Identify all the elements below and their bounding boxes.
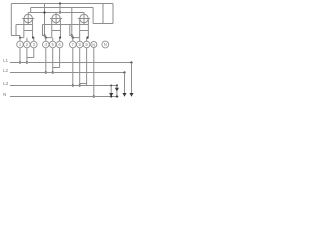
wire terminal 2 lower lead [26,48,28,63]
wire terminal N lower lead [93,48,95,97]
wire output bridge M3 [80,83,87,85]
junction dot L2 return [52,71,54,73]
junction dot L1 input [19,61,21,63]
svg-text:N: N [92,42,95,47]
element M3 current coil left side [79,19,81,38]
element M3 voltage corner [70,25,73,36]
measuring element M2 voltage coil [52,14,60,22]
element M1 voltage wire [16,24,33,26]
terminal N input [91,42,97,48]
junction dot L2 link on voltage bus [43,11,45,13]
junction dot input M2 [45,37,47,39]
wire output bridge M1 [27,57,34,59]
wire left edge [10,4,12,36]
junction dot L1 return [26,61,28,63]
measuring element M1 voltage coil [24,14,32,22]
junction dot input M1 [19,37,21,39]
wire L1 voltage link [11,35,20,37]
svg-text:N: N [3,92,6,97]
wire terminal 5 lower lead [52,48,54,73]
wire terminal 3 lower lead [33,48,35,58]
element M2 voltage corner [43,25,46,36]
terminal 6 [56,41,63,48]
wire terminal 1 lower lead [19,48,21,63]
wire output bridge M2 [53,67,60,69]
arrow L3 load [115,88,119,92]
junction dot N stub [110,95,112,97]
element M3 output jog [87,37,89,39]
wire terminal 1 upper lead [19,36,21,42]
element M1 current coil left side [23,19,25,38]
terminal 1 [17,41,24,48]
wire upper bus left drop [30,8,32,13]
terminal 5 [49,41,56,48]
element M3 voltage wire [60,24,88,26]
arrow N load [109,93,113,97]
element M2 current coil left side [51,19,53,38]
measuring element M3 voltage coil [80,14,88,22]
junction dot output M1 [32,37,34,39]
element M2 output jog [59,37,62,39]
wire terminal 6 upper lead [59,38,61,42]
element M1 current coil right side [32,19,34,38]
wire N load stub [110,86,112,97]
wire voltage-coil bus [28,12,84,14]
svg-text:N: N [104,42,107,47]
wire right edge [112,4,114,24]
wire terminal 3 upper lead [33,38,35,42]
element M3 current coil bottom [80,30,89,32]
element M3 input wire [73,37,80,39]
wire L2 top link [44,4,46,36]
junction dot center drop [59,11,61,13]
wire upper bus [31,7,93,9]
svg-text:L2: L2 [3,68,9,73]
terminal 4 [43,41,50,48]
junction dot L1 rail end [130,61,132,63]
element M2 input wire [46,37,52,39]
element M3 cross vertical [83,12,85,24]
element M2 current coil right side [59,19,61,38]
junction dot L2 input [45,71,47,73]
junction dot L2 link bottom [43,34,45,36]
wire L1 rail [10,62,132,64]
wire terminal 6 lower lead [59,48,61,68]
svg-text:L3: L3 [3,81,9,86]
wire terminal 8 lower lead [79,48,81,86]
wire L2 load tail [124,73,126,97]
element M2 voltage wire [43,24,61,26]
svg-text:L1: L1 [3,58,9,63]
element M2 cross horizontal [50,18,62,20]
terminal 9 [83,41,90,48]
arrow L2 load [122,93,126,97]
wire L2 rail [10,72,125,74]
element M3 current coil right side [87,19,89,38]
wire N rail [10,96,119,98]
wire terminal 4 lower lead [45,48,47,73]
wire center drop [59,4,61,13]
terminal 3 [31,41,38,48]
junction dot top bus [59,2,61,4]
junction dot L3 tail on N rail [116,95,118,97]
junction dot L3 input [72,84,74,86]
junction dot output M3 [86,37,88,39]
wire top bus [11,3,113,5]
terminal 8 [76,41,83,48]
element M1 cross vertical [27,12,29,24]
element M1 cross horizontal [22,18,34,20]
element M1 input wire [20,37,24,39]
element M3 bridge right drop [86,84,88,86]
wire terminal 8 upper lead [79,38,81,42]
wire L3 load tail [116,86,118,97]
wire upper bus right drop [92,8,94,24]
wire terminal 5 upper lead [52,38,54,42]
element M2 current coil bottom [52,30,61,32]
wire L1 load tail [131,63,133,97]
wire terminal 2 upper lead [26,38,28,42]
wire terminal 9 upper lead [86,38,88,42]
terminal N output [102,41,109,48]
element M1 voltage corner [16,25,20,36]
wire terminal 7 upper lead [72,36,74,42]
arrow L1 load [129,93,133,97]
wire L3 top link [71,8,73,36]
terminal 7 [70,41,77,48]
wire N-branch left side [102,4,104,24]
element M1 output jog [33,37,34,39]
junction dot N rail tap [93,95,95,97]
junction dot L2 rail end [123,71,125,73]
junction dot L3 link bottom [71,34,73,36]
junction dot output M2 [59,37,61,39]
terminal 2 [24,41,31,48]
wire L3 rail [10,85,117,87]
wire terminal 4 upper lead [45,36,47,42]
wire N-branch bottom [103,23,113,25]
wire terminal 7 lower lead [72,48,74,86]
junction dot L3 rail end [116,84,118,86]
element M1 current coil bottom [24,30,33,32]
junction dot input M3 [72,37,74,39]
element M2 cross vertical [55,12,57,24]
element M3 cross horizontal [78,18,90,20]
wire terminal 9 lower lead [86,48,88,84]
wire upper bus to N-branch [93,23,103,25]
junction dot N stub top [110,85,112,87]
junction dot L3 return [79,84,81,86]
